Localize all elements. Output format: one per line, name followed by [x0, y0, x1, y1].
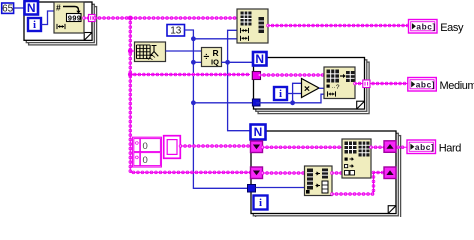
svg-text:R: R — [213, 48, 219, 58]
svg-text:abc]: abc] — [415, 142, 434, 152]
vertical wire IQ to Array Subset index and hard loop N — [228, 30, 251, 130]
for-loop B medium — [254, 58, 370, 114]
loop A count terminal N — [25, 1, 39, 15]
Array Size node — [135, 42, 166, 62]
wire blue tunnel to multiply and index input — [256, 94, 324, 103]
wire 65 to N — [14, 7, 25, 9]
Easy string indicator — [409, 20, 464, 35]
Array Subset node — [237, 9, 268, 43]
branch up to multiply top input — [293, 83, 302, 103]
junction multiply — [290, 100, 295, 105]
loop C blue tunnel — [248, 185, 256, 193]
svg-text:999: 999 — [68, 15, 82, 23]
svg-text:IQ: IQ — [211, 58, 219, 67]
wire DFA deleted-element around to SR2 right — [332, 173, 384, 195]
loop C count terminal N — [251, 125, 266, 140]
svg-text:abc]: abc] — [416, 22, 435, 32]
svg-text:abc]: abc] — [416, 80, 435, 90]
wire SR1 to Replace Array Subset — [263, 146, 343, 150]
svg-text:··?: ··? — [332, 84, 340, 91]
junction QR-y — [191, 60, 196, 65]
loop A iteration terminal i — [28, 18, 41, 31]
empty string-array constant shell — [164, 136, 181, 159]
multiply node — [302, 79, 320, 98]
svg-text:0: 0 — [143, 155, 148, 166]
wire Array Subset to Easy indicator — [268, 24, 408, 28]
loop B blue input tunnel — [252, 99, 260, 106]
Medium string indicator — [408, 78, 474, 93]
wire i to multiply — [287, 93, 302, 95]
Replace Array Subset node — [342, 139, 371, 178]
wire empty constant to SR1 left — [181, 144, 251, 148]
subVI icon body — [54, 2, 84, 33]
wire SR2 to Delete From Array — [263, 171, 305, 175]
loop B count terminal N — [253, 52, 267, 66]
loop B iteration terminal i — [274, 87, 287, 100]
svg-text:Medium: Medium — [440, 80, 474, 92]
loop C shift register right 1 — [384, 141, 396, 153]
svg-text:Easy: Easy — [440, 22, 464, 34]
junction node array-size — [128, 49, 133, 54]
wire RAS to SR1 right and Hard indicator — [371, 146, 407, 150]
junction IQ-split — [225, 60, 230, 65]
Quotient and Remainder node — [202, 48, 222, 67]
Index Array node — [324, 67, 355, 99]
wire QR IQ output to medium loop N — [222, 61, 254, 63]
svg-text:13: 13 — [170, 26, 182, 37]
wire multiply to Index Array — [319, 87, 324, 89]
svg-text:i: i — [33, 19, 36, 31]
string array constant [0,0] — [132, 137, 161, 167]
svg-text:#: # — [56, 3, 61, 13]
wire blue tunnel to Delete From Array index — [256, 187, 305, 189]
svg-text:×: × — [304, 83, 310, 95]
main string-array wire to Array Subset — [95, 16, 237, 20]
wire subVI to tunnel — [84, 16, 89, 20]
junction node medium — [128, 72, 133, 77]
numeric constant 65 — [2, 3, 14, 15]
svg-text:65: 65 — [2, 4, 14, 15]
numeric constant 13 — [167, 25, 185, 37]
loop B string-array input tunnel — [252, 72, 260, 80]
junction node top — [128, 16, 133, 21]
stub wire to Array Size — [130, 49, 134, 53]
svg-text:0: 0 — [143, 141, 148, 152]
svg-text:÷: ÷ — [204, 51, 210, 63]
for-loop C hard — [251, 131, 401, 218]
for-loop A (random string generation) — [24, 2, 97, 45]
loop A output tunnel — [89, 15, 96, 22]
wire Array Size to Quotient/Remainder x input — [166, 50, 202, 52]
wire Index Array to medium output tunnel and Medium indicator — [355, 82, 408, 86]
loop C shift register left 1 — [251, 141, 263, 153]
wire 13 down to QR y input and onward to both loops — [185, 30, 248, 188]
branch wire to medium loop blue tunnel — [193, 102, 252, 104]
wire DFA array-out to RAS — [332, 171, 342, 175]
loop C shift register right 2 — [384, 167, 396, 179]
svg-text:N: N — [255, 52, 264, 66]
svg-text:N: N — [27, 1, 36, 15]
branch wire into QR y input — [193, 61, 201, 63]
svg-text:i: i — [259, 197, 262, 209]
branch wire to Array Subset length input — [193, 38, 238, 40]
junction medium-N wire — [191, 100, 196, 105]
svg-text:i: i — [279, 88, 282, 100]
Delete From Array node — [305, 166, 333, 196]
loop C iteration terminal i — [254, 196, 268, 210]
wire tunnel to Index Array — [260, 73, 325, 77]
vertical string-array trunk wire + bottom branch to hard loop SR2 — [130, 18, 251, 172]
branch wire to medium loop tunnel — [130, 73, 250, 77]
wire i to subVI — [41, 11, 54, 25]
loop B output tunnel — [363, 80, 370, 88]
junction 13-split — [191, 36, 196, 41]
svg-text:N: N — [254, 125, 263, 139]
Hard string indicator — [407, 140, 461, 155]
svg-text:Hard: Hard — [439, 143, 462, 155]
loop C shift register left 2 — [251, 167, 263, 179]
